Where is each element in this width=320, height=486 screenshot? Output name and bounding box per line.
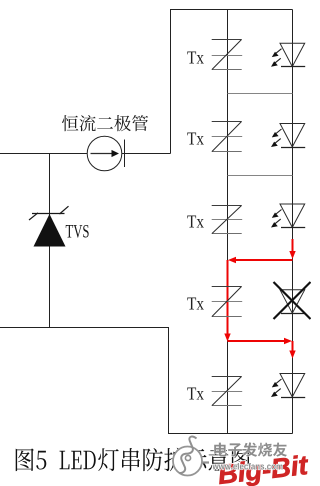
svg-text:Tx: Tx bbox=[187, 383, 204, 403]
svg-text:www.elecfans.com: www.elecfans.com bbox=[212, 462, 283, 473]
svg-text:Tx: Tx bbox=[187, 128, 204, 148]
svg-text:Tx: Tx bbox=[187, 211, 204, 231]
svg-text:TVS: TVS bbox=[66, 222, 90, 243]
svg-text:Tx: Tx bbox=[187, 293, 204, 313]
svg-text:Tx: Tx bbox=[187, 47, 204, 67]
